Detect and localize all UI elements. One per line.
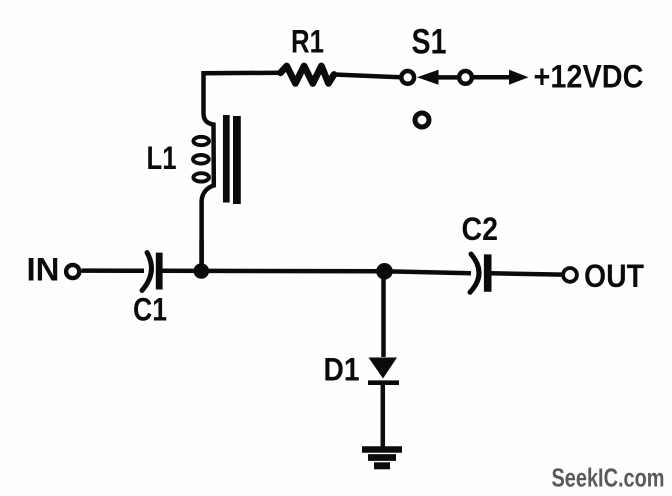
switch S1 common circle	[459, 71, 472, 84]
ground bar 2	[368, 454, 396, 461]
switch S1 left arrowhead	[417, 70, 439, 85]
ground bar 3	[374, 462, 390, 469]
wire to +12VDC arrow	[474, 75, 512, 80]
svg-text:OUT: OUT	[584, 258, 644, 294]
diode D1 triangle	[369, 358, 398, 379]
diode D1 cathode bar	[368, 380, 399, 385]
L1 core bar right	[233, 116, 241, 204]
inductor L1 coil spine	[202, 95, 214, 263]
capacitor C1 curved plate	[142, 253, 151, 291]
svg-text:L1: L1	[147, 140, 177, 176]
inductor L1 loop 3	[193, 173, 209, 181]
L1 core bar left	[223, 115, 230, 203]
wire node B to D1	[381, 271, 386, 357]
wire L1 bottom to node A	[199, 240, 204, 271]
wire C1 to node B	[163, 269, 385, 274]
inductor L1 loop 2	[193, 155, 209, 164]
node B junction dot	[376, 263, 393, 280]
+12VDC arrowhead	[509, 70, 529, 85]
OUT terminal circle	[563, 268, 577, 282]
IN terminal circle	[66, 265, 79, 278]
wire C2 to OUT	[492, 273, 563, 274]
wire node A to C2	[384, 271, 471, 273]
svg-text:SeekIC.com: SeekIC.com	[552, 463, 665, 493]
wire IN to C1	[82, 268, 145, 273]
capacitor C2 straight plate	[484, 254, 492, 291]
capacitor C1 straight plate	[156, 253, 163, 290]
inductor L1 loop 1	[193, 137, 209, 145]
resistor R1	[281, 66, 335, 83]
switch S1 lower throw circle	[415, 113, 429, 127]
svg-text:D1: D1	[324, 352, 360, 388]
svg-text:S1: S1	[412, 22, 447, 62]
node A junction dot	[194, 263, 210, 279]
wire resistor to switch	[334, 75, 401, 78]
ground bar 1	[362, 446, 402, 453]
svg-text:C1: C1	[133, 292, 167, 328]
wire arrow shaft	[436, 75, 458, 80]
capacitor C2 curved plate	[470, 254, 479, 292]
svg-text:C2: C2	[462, 211, 499, 247]
svg-text:+12VDC: +12VDC	[534, 59, 644, 95]
switch S1 pole circle	[401, 71, 414, 84]
svg-text:IN: IN	[27, 252, 60, 288]
wire D1 to ground	[381, 385, 386, 448]
svg-text:R1: R1	[291, 24, 324, 60]
wire top horizontal left segment	[204, 73, 281, 95]
